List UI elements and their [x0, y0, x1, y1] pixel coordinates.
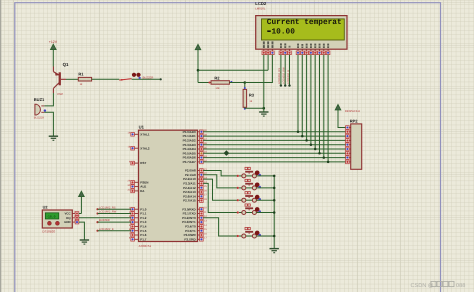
svg-text:LM016L: LM016L	[255, 7, 266, 11]
U1 left pin stubs, markers and numbers	[128, 132, 139, 241]
svg-text:DS18B20: DS18B20	[42, 230, 55, 234]
junction on VDD rail	[197, 69, 200, 72]
push button 3	[237, 192, 275, 203]
svg-text:GND: GND	[64, 220, 70, 224]
svg-text:BUZ1: BUZ1	[34, 97, 45, 102]
svg-text:XTAL2: XTAL2	[140, 146, 150, 150]
P0 data bus wires to RP2	[203, 132, 346, 162]
wire LCD VDD down to +5V rail	[267, 55, 269, 71]
resistor R1	[78, 72, 91, 86]
resistor R3 1k	[243, 83, 255, 110]
push button 5	[237, 227, 275, 238]
junction dots data bus	[297, 131, 330, 164]
wire net LCD1602_RS to U1	[96, 206, 131, 210]
wire LCD VSS to ground	[263, 55, 265, 112]
microcontroller U1 AT89C51	[139, 124, 198, 248]
wire +5V to R2	[198, 82, 211, 84]
svg-text:P3.7/RD: P3.7/RD	[184, 237, 196, 241]
wire net BUZZER to U1	[96, 219, 131, 223]
svg-text:LCD1602_RS: LCD1602_RS	[278, 68, 281, 84]
svg-text:P0.7/AD7: P0.7/AD7	[183, 160, 196, 164]
wire U2 DQ to U1 P1.2	[79, 217, 131, 219]
resistor R2 10k	[208, 75, 232, 90]
svg-text:+12V: +12V	[49, 40, 58, 44]
svg-text:LCD2: LCD2	[255, 1, 267, 6]
svg-text:088: 088	[456, 283, 465, 289]
power terminal +5V (VDD rail)	[195, 44, 201, 82]
wire net LCD1602_E to U1	[96, 228, 131, 232]
wire Q1 collector to buzzer	[44, 93, 53, 106]
svg-text:RESPACK-8: RESPACK-8	[345, 110, 361, 113]
wire LCD VEE down to divider	[245, 55, 273, 83]
power terminal for RP2	[335, 105, 360, 128]
svg-text:LCD1602_E: LCD1602_E	[287, 70, 290, 84]
ground for buzzer	[49, 136, 58, 140]
svg-text:Q1: Q1	[63, 62, 69, 67]
push button 2	[237, 179, 275, 190]
svg-text:RP2: RP2	[350, 119, 359, 124]
svg-text:U1: U1	[139, 124, 145, 129]
buzzer BUZ1	[34, 97, 46, 120]
svg-text:Current temperat: Current temperat	[267, 18, 342, 27]
LCD pin names (rotated)	[263, 41, 329, 48]
origin marker on P0.5 wire	[224, 150, 230, 156]
svg-text:PNP: PNP	[57, 92, 63, 96]
wires U1 P2.0-P2.3 and P3.2 to buttons	[203, 171, 238, 237]
wire U2 VCC to +5V	[79, 213, 82, 215]
button common bus to ground	[273, 175, 276, 249]
wire Q1 base to R1	[66, 78, 78, 80]
svg-text:R2: R2	[214, 75, 220, 80]
LCD pin stubs and markers	[262, 49, 330, 54]
LCD data line verticals D0-D7	[298, 55, 328, 162]
ground for LCD VSS	[259, 112, 268, 116]
power terminal +12V	[49, 40, 58, 67]
wire R2 to R3 junction	[229, 82, 244, 84]
wire LCD RS dangling with label	[278, 55, 282, 87]
svg-text:RST: RST	[140, 161, 146, 165]
probe dots and net label BUZZER (right of R1)	[132, 73, 154, 80]
wire LCD RW dangling with label	[283, 55, 287, 87]
temperature sensor U2 DS18B20	[42, 205, 78, 233]
screen left edge shading	[0, 0, 1, 292]
push button 1	[237, 167, 275, 178]
svg-text:BUZZER: BUZZER	[34, 117, 45, 120]
wire buzzer negative to ground	[44, 112, 53, 136]
svg-text:LCD1602_RW: LCD1602_RW	[283, 67, 286, 84]
push button 4	[237, 204, 275, 215]
transistor Q1 PNP	[53, 62, 69, 96]
junction R2/R3/VEE	[244, 81, 247, 84]
U1 right pin stubs, markers and numbers	[198, 129, 208, 241]
resistor pack RP2	[346, 119, 362, 170]
power terminal +5V for U2	[79, 191, 85, 213]
svg-text:R3: R3	[249, 92, 255, 97]
LCD module LCD2 LM016L	[255, 1, 347, 49]
wire VDD rail to LCD VDD	[198, 69, 268, 71]
svg-text:-10.0: -10.0	[46, 215, 55, 219]
wire R3 bottom to VSS ground node	[245, 106, 264, 109]
svg-text:P2.7/A15: P2.7/A15	[183, 199, 196, 203]
wire net LCD1602_RW to U1	[96, 211, 131, 215]
svg-text:AT89C51: AT89C51	[139, 244, 152, 248]
U1 left pin labels	[140, 132, 150, 241]
svg-text:10k: 10k	[215, 87, 220, 90]
wire LCD E dangling with label	[287, 55, 291, 87]
ground for buttons	[270, 249, 279, 253]
wire R1 to BUZZER net label	[92, 78, 162, 81]
ground for U2	[80, 240, 89, 244]
junction VSS/R3	[263, 107, 266, 110]
svg-text:-10.00: -10.00	[267, 28, 295, 37]
svg-text:R1: R1	[78, 72, 84, 77]
watermark	[411, 281, 466, 289]
svg-text:BUZZER: BUZZER	[143, 76, 154, 79]
svg-text:CSDN @: CSDN @	[411, 282, 434, 289]
U1 right pin labels	[182, 130, 196, 242]
wire U2 GND to ground	[79, 222, 85, 240]
svg-text:XTAL1: XTAL1	[140, 132, 150, 136]
svg-text:P1.7: P1.7	[140, 237, 147, 241]
svg-text:U2: U2	[43, 205, 48, 209]
